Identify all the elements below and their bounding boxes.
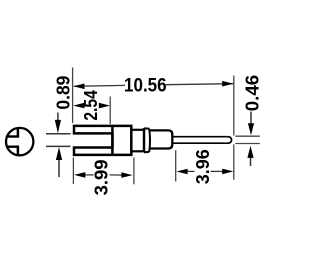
- neck bottom edge: [131, 150, 144, 152]
- right extension line upper segment: [233, 76, 235, 136]
- 3.99 dimension line right segment: [110, 174, 125, 176]
- svg-text:2.54: 2.54: [81, 90, 101, 121]
- 0.89 down arrowhead: [55, 120, 61, 133]
- collar left edge: [143, 128, 146, 152]
- pin: [172, 137, 231, 144]
- 3.99 right arrowhead: [121, 172, 132, 178]
- 2.54 right extension line: [109, 97, 111, 124]
- left extension line: [72, 68, 74, 124]
- 3.96 right arrowhead: [222, 169, 233, 175]
- 2.54 left arrowhead: [73, 103, 84, 109]
- 3.96 left arrowhead: [176, 169, 187, 175]
- 0.89 up arrowhead: [56, 147, 62, 160]
- collar top edge: [144, 127, 149, 129]
- svg-text:3.96: 3.96: [193, 149, 213, 184]
- 0.89 bottom tick: [46, 145, 71, 147]
- 3.96 left extension line: [175, 150, 177, 181]
- 0.46 bottom extension line: [235, 143, 259, 145]
- 0.89 up arrow shaft: [58, 159, 60, 177]
- end view circle: [6, 128, 33, 155]
- 0.46 up arrow shaft: [250, 157, 252, 167]
- 0.46 top extension line: [235, 135, 259, 137]
- end view top slot vertical: [17, 129, 20, 138]
- svg-text:10.56: 10.56: [124, 75, 167, 96]
- 0.89 down arrow shaft: [57, 113, 59, 123]
- neck top edge: [131, 129, 144, 131]
- 3.96 dimension line right segment: [211, 170, 225, 172]
- collar bottom edge: [144, 151, 149, 153]
- 0.89 top tick: [46, 133, 71, 135]
- end view bottom slot bar: [6, 145, 19, 147]
- 0.46 up arrowhead: [247, 146, 253, 158]
- 2.54 right arrowhead: [99, 103, 110, 109]
- fork and body outline: [74, 126, 131, 155]
- collar right edge: [148, 129, 151, 152]
- end view bottom slot vertical: [17, 146, 20, 155]
- right extension line lower segment: [233, 144, 235, 179]
- 3.96 dimension line left segment: [186, 170, 195, 172]
- end view top slot bar: [6, 135, 19, 137]
- 10.56 dimension line left segment: [74, 84, 125, 87]
- svg-text:3.99: 3.99: [92, 159, 112, 195]
- 3.99 dimension line left segment: [83, 174, 94, 176]
- cylinder: [149, 130, 172, 148]
- 10.56 dimension line right segment: [166, 84, 234, 85]
- 10.56 right arrowhead: [222, 81, 233, 87]
- 0.46 down arrowhead: [248, 123, 254, 135]
- svg-text:0.89: 0.89: [53, 76, 73, 110]
- 10.56 left arrowhead: [73, 84, 84, 90]
- svg-text:0.46: 0.46: [243, 75, 263, 112]
- 3.99 left arrowhead: [74, 172, 85, 178]
- 3.99 right extension line: [133, 158, 135, 185]
- 3.99 left extension line: [72, 158, 74, 185]
- 0.46 down arrow shaft: [250, 112, 252, 126]
- fork body divider line: [111, 126, 114, 155]
